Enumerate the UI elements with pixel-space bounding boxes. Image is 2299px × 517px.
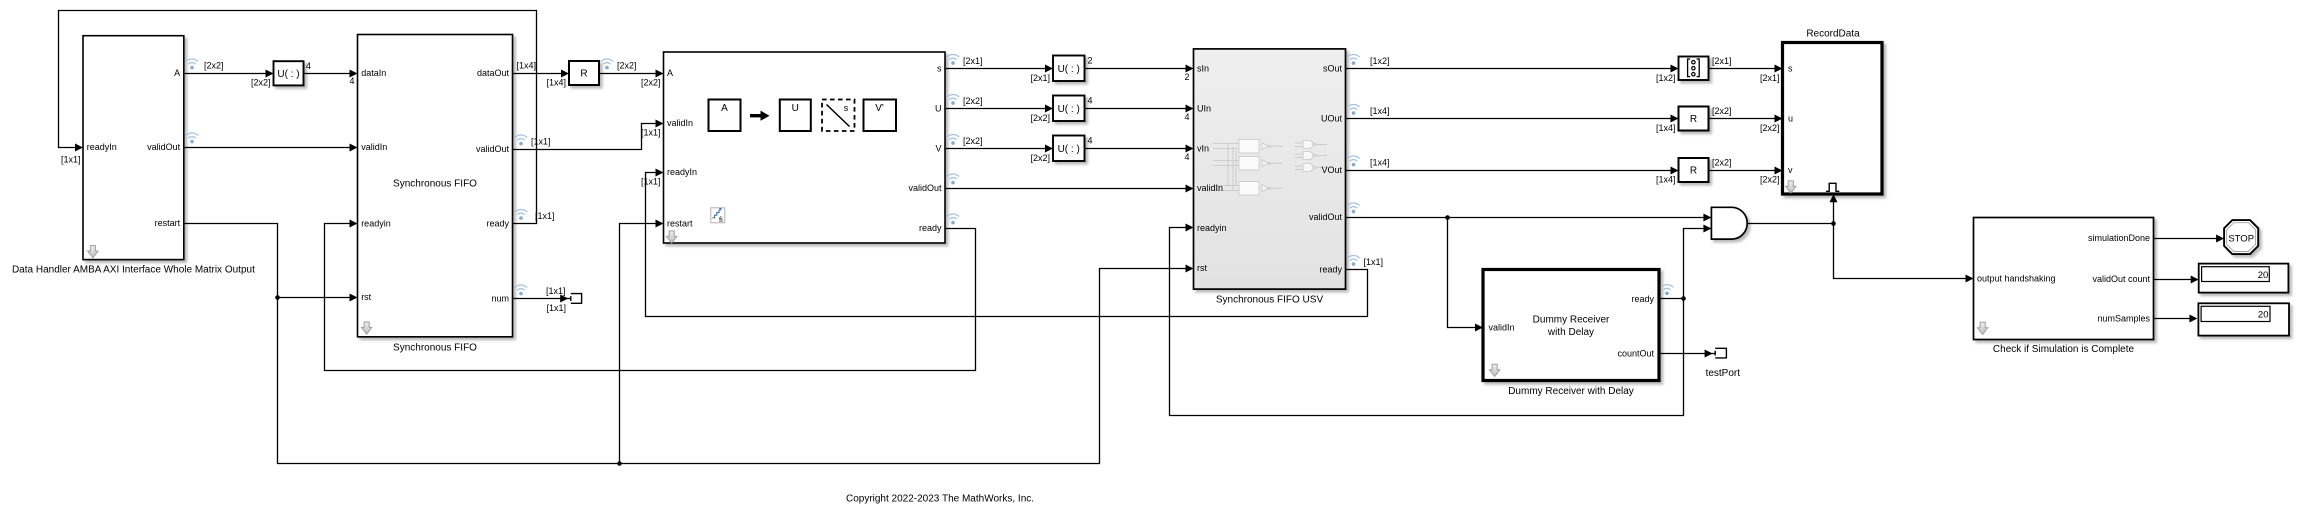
svg-text:Synchronous FIFO USV: Synchronous FIFO USV: [1216, 294, 1324, 305]
svg-text:Synchronous FIFO: Synchronous FIFO: [393, 342, 477, 353]
arrowhead into SVD A: [656, 70, 664, 78]
svg-text:R: R: [580, 69, 587, 80]
wire: SVD ready to FIFO readyin: [325, 224, 976, 371]
wifi icon at USV UOut: [1347, 104, 1359, 114]
svg-text:validIn: validIn: [667, 118, 693, 128]
wifi icon at SVD validOut: [947, 174, 959, 184]
svg-text:[2x2]: [2x2]: [251, 78, 271, 88]
junction dot AND output: [1831, 221, 1836, 226]
wire: SVD validOut to USV validIn: [946, 188, 1187, 190]
svg-text:Data Handler AMBA AXI Interfac: Data Handler AMBA AXI Interface Whole Ma…: [12, 265, 255, 276]
svg-text:UOut: UOut: [1321, 114, 1343, 124]
svg-text:[1x4]: [1x4]: [1656, 175, 1676, 185]
wire: Check numSamples to display 2: [2154, 318, 2191, 320]
selector block U(:) #2 (s path): [1053, 56, 1085, 82]
wire: selector #4 to USV vIn: [1085, 148, 1187, 150]
arrowhead into USV UIn: [1186, 105, 1194, 113]
svg-text:20: 20: [2258, 309, 2269, 320]
svg-text:validOut: validOut: [147, 142, 181, 152]
wire: restart branch to FIFO rst: [278, 297, 351, 299]
svg-text:u: u: [1788, 114, 1793, 124]
svg-text:[1x1]: [1x1]: [546, 303, 566, 313]
svg-text:[1x4]: [1x4]: [1656, 123, 1676, 133]
wire: R3 to RecordData v: [1709, 170, 1776, 172]
svg-text:simulationDone: simulationDone: [2088, 233, 2150, 243]
junction dot restart trunk: [617, 461, 622, 466]
reshape block R3: [1679, 158, 1709, 182]
reshape block R2: [1679, 107, 1709, 131]
wire: FIFO ready feedback to Data Handler readyIn: [59, 11, 537, 224]
svg-text:[2x2]: [2x2]: [1712, 158, 1732, 168]
svg-text:Check if Simulation is Complet: Check if Simulation is Complete: [1993, 344, 2135, 355]
wire: FIFO dataOut to R1: [513, 73, 563, 75]
svg-text:[1x1]: [1x1]: [1364, 257, 1384, 267]
arrowhead into FIFO dataIn: [350, 70, 358, 78]
svg-text:[2x1]: [2x1]: [1030, 73, 1050, 83]
svg-text:countOut: countOut: [1617, 349, 1654, 359]
wifi icon at FIFO validOut: [515, 135, 527, 145]
junction dot restart/rst: [275, 295, 280, 300]
svg-text:V: V: [935, 144, 941, 154]
arrowhead into SVD readyIn: [656, 169, 664, 177]
selector block U(:) #4 (V path): [1053, 136, 1085, 162]
wifi icon at FIFO ready: [515, 209, 527, 219]
SVD icon matrix A box: [709, 100, 741, 132]
wifi icon at USV validOut: [1347, 203, 1359, 213]
svg-text:[2x2]: [2x2]: [963, 136, 983, 146]
subsystem block: Dummy Receiver with Delay: [1483, 270, 1659, 381]
svg-text:[2x1]: [2x1]: [963, 56, 983, 66]
svg-text:readyin: readyin: [1197, 223, 1227, 233]
svg-text:ready: ready: [919, 223, 942, 233]
svg-text:[2x2]: [2x2]: [204, 61, 224, 71]
arrowhead into selector #2: [1045, 65, 1053, 73]
svg-text:4: 4: [349, 76, 354, 86]
svg-text:[1x1]: [1x1]: [641, 177, 661, 187]
wire: selector #3 to USV UIn: [1085, 108, 1187, 110]
bracket dots icon: [1688, 59, 1691, 77]
wire: USV validOut branch down to Dummy validIn: [1448, 218, 1477, 328]
svg-text:R: R: [1690, 114, 1697, 125]
svg-text:RecordData: RecordData: [1806, 28, 1860, 39]
display block validOut count (inner value box): [2202, 267, 2270, 282]
arrowhead into USV sIn: [1186, 65, 1194, 73]
svg-text:V': V': [875, 103, 884, 114]
svg-text:validOut count: validOut count: [2092, 274, 2150, 284]
svg-text:U( : ): U( : ): [1058, 64, 1080, 75]
svg-text:A: A: [174, 68, 180, 78]
svg-text:[1x1]: [1x1]: [535, 211, 555, 221]
junction dot USV validOut: [1445, 215, 1450, 220]
svg-text:4: 4: [306, 61, 311, 71]
svg-text:ready: ready: [1631, 294, 1654, 304]
svg-text:Dummy Receiver: Dummy Receiver: [1533, 314, 1610, 325]
svg-text:validOut: validOut: [1309, 212, 1343, 222]
arrowhead into display 1: [2191, 276, 2199, 284]
wire: USV UOut to R2: [1346, 118, 1672, 120]
arrowhead into FIFO USV rst: [1186, 265, 1194, 273]
Synchronous FIFO link badge: [362, 322, 372, 334]
arrowhead into selector #4: [1045, 145, 1053, 153]
terminator block (num testpoint): [570, 296, 572, 301]
arrowhead up into RecordData trigger: [1830, 194, 1838, 202]
arrowhead into Data Handler readyIn: [75, 144, 83, 152]
svg-text:rst: rst: [361, 292, 371, 302]
svg-text:[2x2]: [2x2]: [1760, 175, 1780, 185]
display block numSamples (inner value box): [2201, 306, 2270, 321]
arrowhead into display 2: [2189, 315, 2197, 323]
svg-text:Synchronous FIFO: Synchronous FIFO: [393, 179, 477, 190]
svg-text:[1x2]: [1x2]: [1656, 73, 1676, 83]
arrowhead into USV vIn: [1186, 145, 1194, 153]
svg-text:output handshaking: output handshaking: [1977, 274, 2056, 284]
arrowhead into RecordData s: [1775, 65, 1783, 73]
svg-text:restart: restart: [155, 218, 181, 228]
wire: SVD s to selector #2: [946, 68, 1047, 70]
Data Handler link badge (gray down arrow): [88, 246, 98, 258]
wire: Dummy ready branch up to AND gate input 2: [1684, 229, 1705, 299]
SVD icon dashed S box: [822, 100, 855, 132]
svg-text:ready: ready: [1319, 265, 1342, 275]
svg-text:STOP: STOP: [2228, 234, 2254, 245]
svg-text:[1x4]: [1x4]: [546, 78, 566, 88]
svg-text:A: A: [721, 103, 728, 114]
display block validOut count (outer): [2199, 264, 2289, 293]
svg-text:dataIn: dataIn: [361, 68, 386, 78]
svg-text:sIn: sIn: [1197, 64, 1209, 74]
wifi icon at SVD V: [947, 134, 959, 144]
svg-text:ready: ready: [486, 219, 509, 229]
wifi icon at Data Handler A: [186, 59, 198, 69]
svg-text:4: 4: [1088, 96, 1093, 106]
wifi icon at FIFO num: [515, 285, 527, 295]
svg-text:v: v: [1788, 165, 1793, 175]
svg-text:[1x1]: [1x1]: [546, 286, 566, 296]
subsystem block: Synchronous FIFO USV: [1194, 49, 1346, 289]
subsystem block: Synchronous FIFO (left): [358, 35, 513, 337]
wire: USV VOut to R3: [1346, 170, 1672, 172]
svg-text:4: 4: [1088, 136, 1093, 146]
arrowhead into FIFO readyin: [350, 220, 358, 228]
SVD fixed-point badge box: [711, 208, 725, 223]
wire: FIFO num to terminator: [513, 298, 571, 300]
subsystem block: RecordData: [1783, 43, 1883, 195]
wire: Check simulationDone to STOP: [2154, 238, 2218, 240]
arrowhead into num terminator: [560, 295, 568, 303]
wifi icon at USV ready: [1347, 255, 1359, 265]
svg-text:s: s: [844, 103, 849, 113]
svg-text:A: A: [667, 68, 673, 78]
arrowhead into STOP: [2216, 235, 2224, 243]
svg-text:U: U: [935, 104, 942, 114]
svg-text:4: 4: [1184, 112, 1189, 122]
wire: USV ready to SVD readyIn: [646, 173, 1368, 317]
svg-text:[2x2]: [2x2]: [1760, 123, 1780, 133]
svg-text:[2x2]: [2x2]: [641, 78, 661, 88]
svg-text:[1x1]: [1x1]: [531, 137, 551, 147]
svg-text:[2x2]: [2x2]: [1030, 113, 1050, 123]
subsystem block: Check if Simulation is Complete: [1974, 218, 2154, 340]
svg-text:s: s: [1788, 64, 1793, 74]
svg-text:validOut: validOut: [476, 144, 510, 154]
svg-text:vIn: vIn: [1197, 144, 1209, 154]
svg-text:validIn: validIn: [1489, 323, 1515, 333]
svg-text:validOut: validOut: [908, 183, 942, 193]
reshape-to-column block (bracket dots icon): [1679, 57, 1709, 81]
svg-text:[2x2]: [2x2]: [1712, 106, 1732, 116]
arrowhead into AND gate input 1: [1703, 214, 1711, 222]
wire: SVD V to selector #4: [946, 148, 1047, 150]
wire: AND output branch up to RecordData trigger: [1833, 201, 1835, 224]
wifi icon at USV VOut: [1347, 156, 1359, 166]
Check link badge: [1978, 322, 1988, 334]
svg-text:UIn: UIn: [1197, 104, 1211, 114]
STOP simulation block octagon: [2224, 220, 2258, 254]
wifi icon after R1: [601, 59, 613, 69]
arrowhead into R3: [1671, 167, 1679, 175]
junction dot Dummy ready: [1681, 296, 1686, 301]
svg-text:U( : ): U( : ): [1058, 104, 1080, 115]
svg-text:validIn: validIn: [1197, 183, 1223, 193]
svg-text:validIn: validIn: [361, 142, 387, 152]
svg-text:[1x1]: [1x1]: [641, 128, 661, 138]
arrowhead into AND gate input 2: [1703, 225, 1711, 233]
arrowhead into SVD validIn: [656, 120, 664, 128]
svg-text:[2x2]: [2x2]: [617, 61, 637, 71]
svg-text:s: s: [937, 64, 942, 74]
wire: selector #2 to USV sIn: [1085, 68, 1187, 70]
svg-text:num: num: [491, 294, 509, 304]
svg-text:U: U: [792, 103, 799, 114]
wire: AND output branch to Check input: [1834, 224, 1967, 279]
wifi icon at SVD U: [947, 94, 959, 104]
svg-text:with Delay: with Delay: [1547, 327, 1594, 338]
arrowhead into R1: [561, 70, 569, 78]
svg-text:fi: fi: [719, 215, 723, 224]
svg-text:Copyright 2022-2023 The MathWo: Copyright 2022-2023 The MathWorks, Inc.: [846, 494, 1034, 505]
wire: FIFO validOut to SVD validIn: [513, 124, 657, 150]
svg-text:2: 2: [1184, 72, 1189, 82]
wifi icon at Dummy ready: [1661, 285, 1673, 295]
Synchronous FIFO USV watermark schematic: [1213, 140, 1327, 196]
arrowhead into R2: [1671, 115, 1679, 123]
wifi icon at SVD ready: [947, 214, 959, 224]
SVD icon bold arrow: [750, 114, 762, 117]
svg-text:4: 4: [1184, 152, 1189, 162]
svg-text:Dummy Receiver with Delay: Dummy Receiver with Delay: [1508, 386, 1634, 397]
svg-text:readyin: readyin: [361, 219, 391, 229]
arrowhead into reshape-to-column: [1671, 65, 1679, 73]
arrowhead into FIFO rst: [350, 294, 358, 302]
svg-text:[1x4]: [1x4]: [1370, 158, 1390, 168]
wire: AND gate output trunk: [1748, 223, 1834, 225]
arrowhead into RecordData v: [1775, 167, 1783, 175]
wire: SVD U to selector #3: [946, 108, 1047, 110]
SVD fixed-point badge staircase: [712, 210, 720, 218]
svg-text:[2x1]: [2x1]: [1760, 73, 1780, 83]
arrowhead into testPort terminator: [1705, 350, 1713, 358]
subsystem block: SVD (Square Jacobi SVD): [664, 52, 946, 243]
arrowhead into selector #3: [1045, 105, 1053, 113]
svg-text:[1x4]: [1x4]: [517, 61, 537, 71]
SVD link badge: [667, 231, 677, 243]
wire: USV validOut to AND gate input 1: [1346, 217, 1705, 219]
wire: Data Handler validOut to FIFO validIn: [185, 147, 351, 149]
selector block U(:) #1: [274, 61, 304, 85]
arrowhead into USV readyin: [1186, 224, 1194, 232]
SVD icon S box diagonal: [827, 105, 850, 127]
svg-text:[2x2]: [2x2]: [1030, 153, 1050, 163]
arrowhead into RecordData u: [1775, 115, 1783, 123]
wire: Dummy ready to USV readyin and AND gate: [1170, 228, 1684, 416]
svg-text:readyIn: readyIn: [667, 167, 697, 177]
svg-text:U( : ): U( : ): [277, 69, 299, 80]
RecordData trigger pulse icon: [1826, 183, 1839, 191]
svg-text:[1x4]: [1x4]: [1370, 106, 1390, 116]
arrowhead into Check output handshaking: [1966, 275, 1974, 283]
svg-text:rst: rst: [1197, 263, 1207, 273]
wifi icon at SVD s: [947, 54, 959, 64]
wire: restart branch to SVD restart: [620, 224, 657, 464]
wire: selector #1 to FIFO dataIn: [304, 73, 351, 75]
terminator block testPort: [1714, 351, 1716, 356]
svg-text:[2x2]: [2x2]: [963, 96, 983, 106]
selector block U(:) #3 (U path): [1053, 96, 1085, 122]
wire: reshape-to-column to RecordData s: [1709, 68, 1776, 70]
arrowhead into USV validIn: [1186, 185, 1194, 193]
svg-text:sOut: sOut: [1323, 64, 1343, 74]
wire: Dummy countOut to testPort: [1660, 353, 1716, 355]
wire: Data Handler A to selector U(:) #1: [185, 73, 267, 75]
subsystem block: Data Handler AMBA AXI Interface Whole Matrix Output: [83, 36, 184, 260]
svg-text:[1x2]: [1x2]: [1370, 56, 1390, 66]
svg-text:[1x1]: [1x1]: [61, 155, 81, 165]
Dummy Receiver link badge: [1490, 364, 1500, 376]
svg-text:[2x1]: [2x1]: [1712, 56, 1732, 66]
SVD icon matrix U box: [780, 100, 811, 132]
reshape block R1: [569, 61, 599, 85]
arrowhead into FIFO validIn: [350, 144, 358, 152]
wire: R1 to SVD A: [600, 73, 657, 75]
wifi icon at Data Handler validOut: [186, 133, 198, 143]
arrowhead into SVD restart: [656, 220, 664, 228]
svg-text:U( : ): U( : ): [1058, 144, 1080, 155]
SVD icon V-transpose box: [864, 100, 897, 132]
svg-text:numSamples: numSamples: [2097, 314, 2150, 324]
svg-text:20: 20: [2258, 270, 2269, 281]
wire: USV sOut to reshape-to-column: [1346, 68, 1672, 70]
RecordData link badge: [1786, 181, 1796, 193]
arrowhead into Dummy validIn: [1475, 324, 1483, 332]
arrowhead into selector #1: [266, 70, 274, 78]
display block numSamples (outer): [2198, 303, 2289, 335]
wire: Data Handler restart trunk: [185, 224, 1187, 464]
wifi icon at USV sOut: [1347, 54, 1359, 64]
svg-text:testPort: testPort: [1706, 368, 1741, 379]
svg-text:dataOut: dataOut: [477, 68, 510, 78]
svg-text:VOut: VOut: [1321, 165, 1342, 175]
svg-text:readyIn: readyIn: [87, 142, 117, 152]
AND gate U-logical: [1711, 207, 1747, 239]
wire: Check validOut count to display 1: [2154, 279, 2192, 281]
wire: R2 to RecordData u: [1709, 118, 1776, 120]
svg-text:restart: restart: [667, 219, 693, 229]
svg-text:R: R: [1690, 166, 1697, 177]
svg-text:2: 2: [1088, 56, 1093, 66]
